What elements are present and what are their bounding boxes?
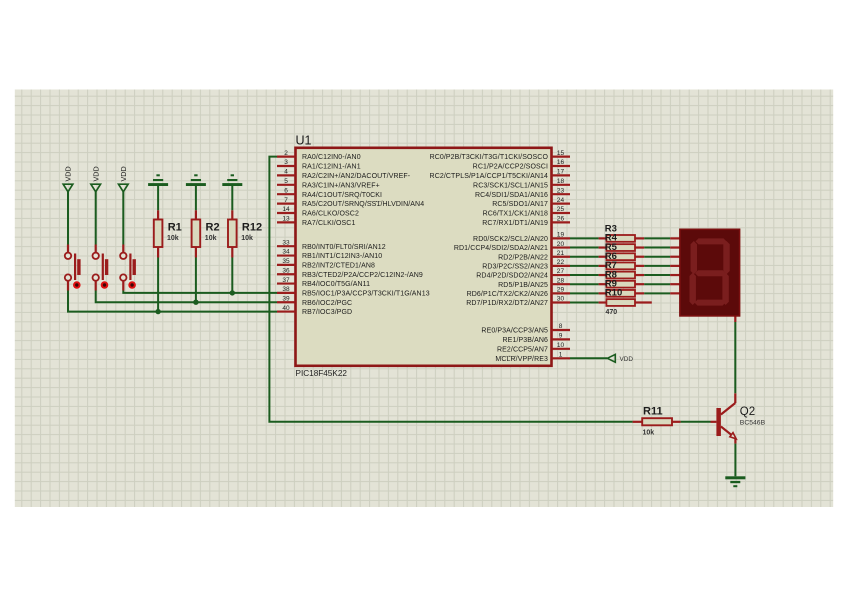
power flag VDD (button 2) bbox=[91, 166, 101, 191]
svg-text:8: 8 bbox=[559, 323, 563, 330]
display segment e (bottom-left) bbox=[690, 273, 696, 305]
svg-text:21: 21 bbox=[557, 250, 565, 257]
resistor R11 10k bbox=[633, 406, 681, 437]
svg-text:19: 19 bbox=[557, 232, 565, 239]
svg-text:23: 23 bbox=[557, 187, 565, 194]
IC U1 PIC18F45K22 microcontroller body bbox=[296, 134, 552, 378]
resistor R3 470 bbox=[599, 224, 645, 242]
svg-text:28: 28 bbox=[557, 277, 565, 284]
svg-text:35: 35 bbox=[282, 258, 290, 265]
svg-text:470: 470 bbox=[606, 309, 618, 316]
U1 left pin stubs RA0-RA7 with pin numbers 2-7,14,13 bbox=[277, 150, 424, 227]
display segment f (top-left) bbox=[691, 241, 697, 274]
wire U1 RD7 to R10 bbox=[570, 302, 599, 304]
svg-text:VDD: VDD bbox=[64, 166, 73, 181]
wire U1 MCLR (pin1) to VDD flag bbox=[570, 357, 607, 359]
ground above R2 bbox=[186, 174, 206, 186]
svg-text:6: 6 bbox=[284, 187, 288, 194]
svg-text:10k: 10k bbox=[241, 235, 253, 242]
svg-text:26: 26 bbox=[557, 216, 565, 223]
wire U1 RD3 to R6 bbox=[570, 265, 599, 267]
svg-text:RB1/INT1/C12IN3-/AN10: RB1/INT1/C12IN3-/AN10 bbox=[302, 253, 382, 260]
svg-text:Q2: Q2 bbox=[740, 406, 755, 418]
svg-text:17: 17 bbox=[557, 169, 565, 176]
power flag VDD (button 1) bbox=[63, 166, 73, 191]
svg-text:22: 22 bbox=[557, 259, 565, 266]
wire R2 to button row bbox=[193, 258, 198, 305]
resistor R10 470 bbox=[599, 288, 652, 306]
svg-text:RB6/IOC2/PGC: RB6/IOC2/PGC bbox=[302, 300, 352, 307]
wire R8 to display segment pin bbox=[644, 283, 680, 285]
display segment g (middle) bbox=[695, 270, 726, 276]
svg-text:1: 1 bbox=[559, 352, 563, 359]
wire button 3 to U1 bbox=[123, 281, 277, 293]
svg-text:9: 9 bbox=[559, 333, 563, 340]
wire U1 RD6 to R9 bbox=[570, 292, 599, 294]
resistor R8 470 bbox=[599, 269, 645, 287]
wire R7 to display segment pin bbox=[644, 274, 680, 276]
ground above R12 bbox=[222, 174, 242, 186]
svg-text:RA0/C12IN0-/AN0: RA0/C12IN0-/AN0 bbox=[302, 154, 361, 161]
svg-text:30: 30 bbox=[557, 296, 565, 303]
wire R9 to display segment pin bbox=[644, 292, 680, 294]
svg-text:R2: R2 bbox=[206, 222, 220, 234]
wire U1 RD5 to R8 bbox=[570, 283, 599, 285]
svg-text:20: 20 bbox=[557, 241, 565, 248]
svg-text:40: 40 bbox=[282, 305, 290, 312]
svg-text:RB2/INT2/CTED1/AN8: RB2/INT2/CTED1/AN8 bbox=[302, 262, 375, 269]
svg-text:25: 25 bbox=[557, 206, 565, 213]
svg-text:RB0/INT0/FLT0/SRI/AN12: RB0/INT0/FLT0/SRI/AN12 bbox=[302, 244, 386, 251]
display segment a (top) bbox=[696, 238, 727, 244]
svg-text:R11: R11 bbox=[643, 406, 663, 418]
wire U1 RA0 (pin2) down and to R11 bbox=[269, 157, 632, 422]
wire R5 to display segment pin bbox=[644, 256, 680, 258]
wire R11 to Q2 base bbox=[681, 421, 717, 423]
wire R6 to display segment pin bbox=[644, 265, 680, 267]
svg-text:RB3/CTED2/P2A/CCP2/C12IN2-/AN9: RB3/CTED2/P2A/CCP2/C12IN2-/AN9 bbox=[302, 272, 423, 279]
svg-text:MCLR/VPP/RE3: MCLR/VPP/RE3 bbox=[495, 356, 548, 363]
transistor Q2 BC546B bbox=[716, 403, 765, 444]
svg-text:RC2/CTPLS/P1A/CCP1/T5CKI/AN14: RC2/CTPLS/P1A/CCP1/T5CKI/AN14 bbox=[430, 173, 548, 180]
wire VDD to button 3 bbox=[122, 192, 124, 252]
svg-text:18: 18 bbox=[557, 178, 565, 185]
power flag VDD at MCLR bbox=[607, 354, 633, 363]
svg-text:29: 29 bbox=[557, 287, 565, 294]
svg-text:RD1/CCP4/SDI2/SDA2/AN21: RD1/CCP4/SDI2/SDA2/AN21 bbox=[454, 245, 548, 252]
svg-text:RA6/CLKO/OSC2: RA6/CLKO/OSC2 bbox=[302, 211, 359, 218]
svg-text:36: 36 bbox=[282, 267, 290, 274]
svg-text:RB5/IOC1/P3A/CCP3/T3CKI/T1G/AN: RB5/IOC1/P3A/CCP3/T3CKI/T1G/AN13 bbox=[302, 291, 430, 298]
svg-text:10k: 10k bbox=[643, 429, 655, 436]
svg-text:RD4/P2D/SDO2/AN24: RD4/P2D/SDO2/AN24 bbox=[476, 273, 548, 280]
svg-text:16: 16 bbox=[557, 159, 565, 166]
wire R3 to display segment pin bbox=[644, 237, 680, 239]
resistor R12 10k bbox=[228, 186, 262, 258]
wire Q2 emitter to ground bbox=[734, 444, 736, 477]
svg-text:3: 3 bbox=[284, 159, 288, 166]
wire VDD to button 2 bbox=[95, 192, 97, 252]
wire U1 RD4 to R7 bbox=[570, 274, 599, 276]
svg-text:RB7/IOC3/PGD: RB7/IOC3/PGD bbox=[302, 309, 352, 316]
svg-text:RD2/P2B/AN22: RD2/P2B/AN22 bbox=[498, 254, 548, 261]
svg-text:10k: 10k bbox=[205, 235, 217, 242]
ground above R1 bbox=[148, 174, 168, 186]
resistor R4 470 bbox=[599, 233, 645, 251]
7-segment display body bbox=[680, 229, 740, 316]
svg-text:R10: R10 bbox=[605, 288, 622, 299]
svg-text:39: 39 bbox=[282, 295, 290, 302]
svg-text:RD0/SCK2/SCL2/AN20: RD0/SCK2/SCL2/AN20 bbox=[473, 236, 548, 243]
svg-text:R12: R12 bbox=[242, 222, 262, 234]
svg-text:RA2/C2IN+/AN2/DACOUT/VREF-: RA2/C2IN+/AN2/DACOUT/VREF- bbox=[302, 173, 411, 180]
U1 left pin stubs RB0-RB7 with pin numbers 33-40 bbox=[277, 239, 430, 316]
svg-text:RC5/SDO1/AN17: RC5/SDO1/AN17 bbox=[492, 201, 548, 208]
wire button 2 to U1 bbox=[96, 281, 277, 302]
svg-text:7: 7 bbox=[284, 197, 288, 204]
svg-text:10: 10 bbox=[557, 342, 565, 349]
svg-text:RC6/TX1/CK1/AN18: RC6/TX1/CK1/AN18 bbox=[483, 211, 548, 218]
svg-text:RA7/CLKI/OSC1: RA7/CLKI/OSC1 bbox=[302, 220, 355, 227]
svg-text:RD7/P1D/RX2/DT2/AN27: RD7/P1D/RX2/DT2/AN27 bbox=[466, 300, 548, 307]
resistor R1 10k bbox=[154, 186, 182, 258]
svg-text:24: 24 bbox=[557, 197, 565, 204]
svg-text:VDD: VDD bbox=[620, 356, 634, 363]
svg-text:2: 2 bbox=[284, 150, 288, 157]
svg-text:RE1/P3B/AN6: RE1/P3B/AN6 bbox=[503, 337, 548, 344]
push button 3 bbox=[120, 253, 136, 289]
power flag VDD (button 3) bbox=[119, 166, 129, 191]
wire R1 to button row bbox=[155, 258, 160, 315]
svg-text:RC1/P2A/CCP2/SOSCI: RC1/P2A/CCP2/SOSCI bbox=[473, 164, 548, 171]
svg-text:38: 38 bbox=[282, 286, 290, 293]
svg-text:RD5/P1B/AN25: RD5/P1B/AN25 bbox=[498, 282, 548, 289]
svg-text:10k: 10k bbox=[167, 235, 179, 242]
svg-text:15: 15 bbox=[557, 150, 565, 157]
svg-text:RC0/P2B/T3CKI/T3G/T1CKI/SOSCO: RC0/P2B/T3CKI/T3G/T1CKI/SOSCO bbox=[430, 154, 549, 161]
svg-text:5: 5 bbox=[284, 178, 288, 185]
value label 470 for resistor network bbox=[606, 309, 618, 316]
svg-text:U1: U1 bbox=[296, 134, 312, 148]
svg-text:RA1/C12IN1-/AN1: RA1/C12IN1-/AN1 bbox=[302, 164, 361, 171]
svg-text:RD6/P1C/TX2/CK2/AN26: RD6/P1C/TX2/CK2/AN26 bbox=[467, 291, 548, 298]
push button 1 bbox=[65, 253, 81, 289]
svg-text:RC4/SDI1/SDA1/AN16: RC4/SDI1/SDA1/AN16 bbox=[475, 192, 548, 199]
wire U1 RD2 to R5 bbox=[570, 256, 599, 258]
U1 right pin stubs RE0-RE2, MCLR with pin numbers 8,9,10,1 bbox=[481, 323, 570, 363]
resistor R7 470 bbox=[599, 260, 645, 278]
svg-text:13: 13 bbox=[282, 216, 290, 223]
svg-text:R1: R1 bbox=[168, 222, 182, 234]
display segment d (bottom) bbox=[695, 300, 726, 306]
svg-text:RE0/P3A/CCP3/AN5: RE0/P3A/CCP3/AN5 bbox=[481, 328, 548, 335]
svg-text:37: 37 bbox=[282, 277, 290, 284]
display segment c (bottom-right) bbox=[722, 273, 728, 305]
svg-text:RA4/C1OUT/SRQ/T0CKI: RA4/C1OUT/SRQ/T0CKI bbox=[302, 192, 382, 199]
wire U1 RD1 to R4 bbox=[570, 247, 599, 249]
svg-text:RC7/RX1/DT1/AN19: RC7/RX1/DT1/AN19 bbox=[482, 220, 548, 227]
svg-text:RC3/SCK1/SCL1/AN15: RC3/SCK1/SCL1/AN15 bbox=[473, 182, 548, 189]
svg-text:34: 34 bbox=[282, 249, 290, 256]
svg-text:RA5/C2OUT/SRNQ/SS1/HLVDIN/AN4: RA5/C2OUT/SRNQ/SS1/HLVDIN/AN4 bbox=[302, 201, 424, 208]
U1 right pin stubs RD0-RD7 with pin numbers 19-22,27-30 bbox=[454, 232, 570, 308]
svg-text:VDD: VDD bbox=[91, 166, 100, 181]
resistor R9 470 bbox=[599, 278, 645, 296]
display segment b (top-right) bbox=[723, 241, 729, 274]
svg-text:VDD: VDD bbox=[119, 166, 128, 181]
svg-text:RB4/IOC0/T5G/AN11: RB4/IOC0/T5G/AN11 bbox=[302, 281, 370, 288]
svg-text:RA3/C1IN+/AN3/VREF+: RA3/C1IN+/AN3/VREF+ bbox=[302, 182, 380, 189]
svg-text:27: 27 bbox=[557, 268, 565, 275]
svg-text:BC546B: BC546B bbox=[740, 420, 766, 427]
push button 2 bbox=[93, 253, 109, 289]
svg-text:PIC18F45K22: PIC18F45K22 bbox=[296, 369, 348, 378]
wire Q2 collector to display common bbox=[734, 316, 736, 403]
wire VDD to button 1 bbox=[67, 192, 69, 252]
wire button 1 to U1 bbox=[68, 281, 277, 312]
U1 right pin stubs RC0-RC7 with pin numbers 15-18,23-26 bbox=[430, 150, 570, 227]
wire R12 to button row bbox=[230, 258, 235, 296]
wire R4 to display segment pin bbox=[644, 247, 680, 249]
svg-text:RE2/CCP5/AN7: RE2/CCP5/AN7 bbox=[497, 346, 548, 353]
svg-text:33: 33 bbox=[282, 239, 290, 246]
svg-text:14: 14 bbox=[282, 206, 290, 213]
svg-text:RD3/P2C/SS2/AN23: RD3/P2C/SS2/AN23 bbox=[482, 263, 548, 270]
ground below Q2 bbox=[725, 476, 745, 487]
resistor R5 470 bbox=[599, 242, 645, 260]
resistor R6 470 bbox=[599, 251, 645, 269]
svg-text:4: 4 bbox=[284, 169, 288, 176]
wire U1 RD0 to R3 bbox=[570, 237, 599, 239]
resistor R2 10k bbox=[192, 186, 220, 258]
